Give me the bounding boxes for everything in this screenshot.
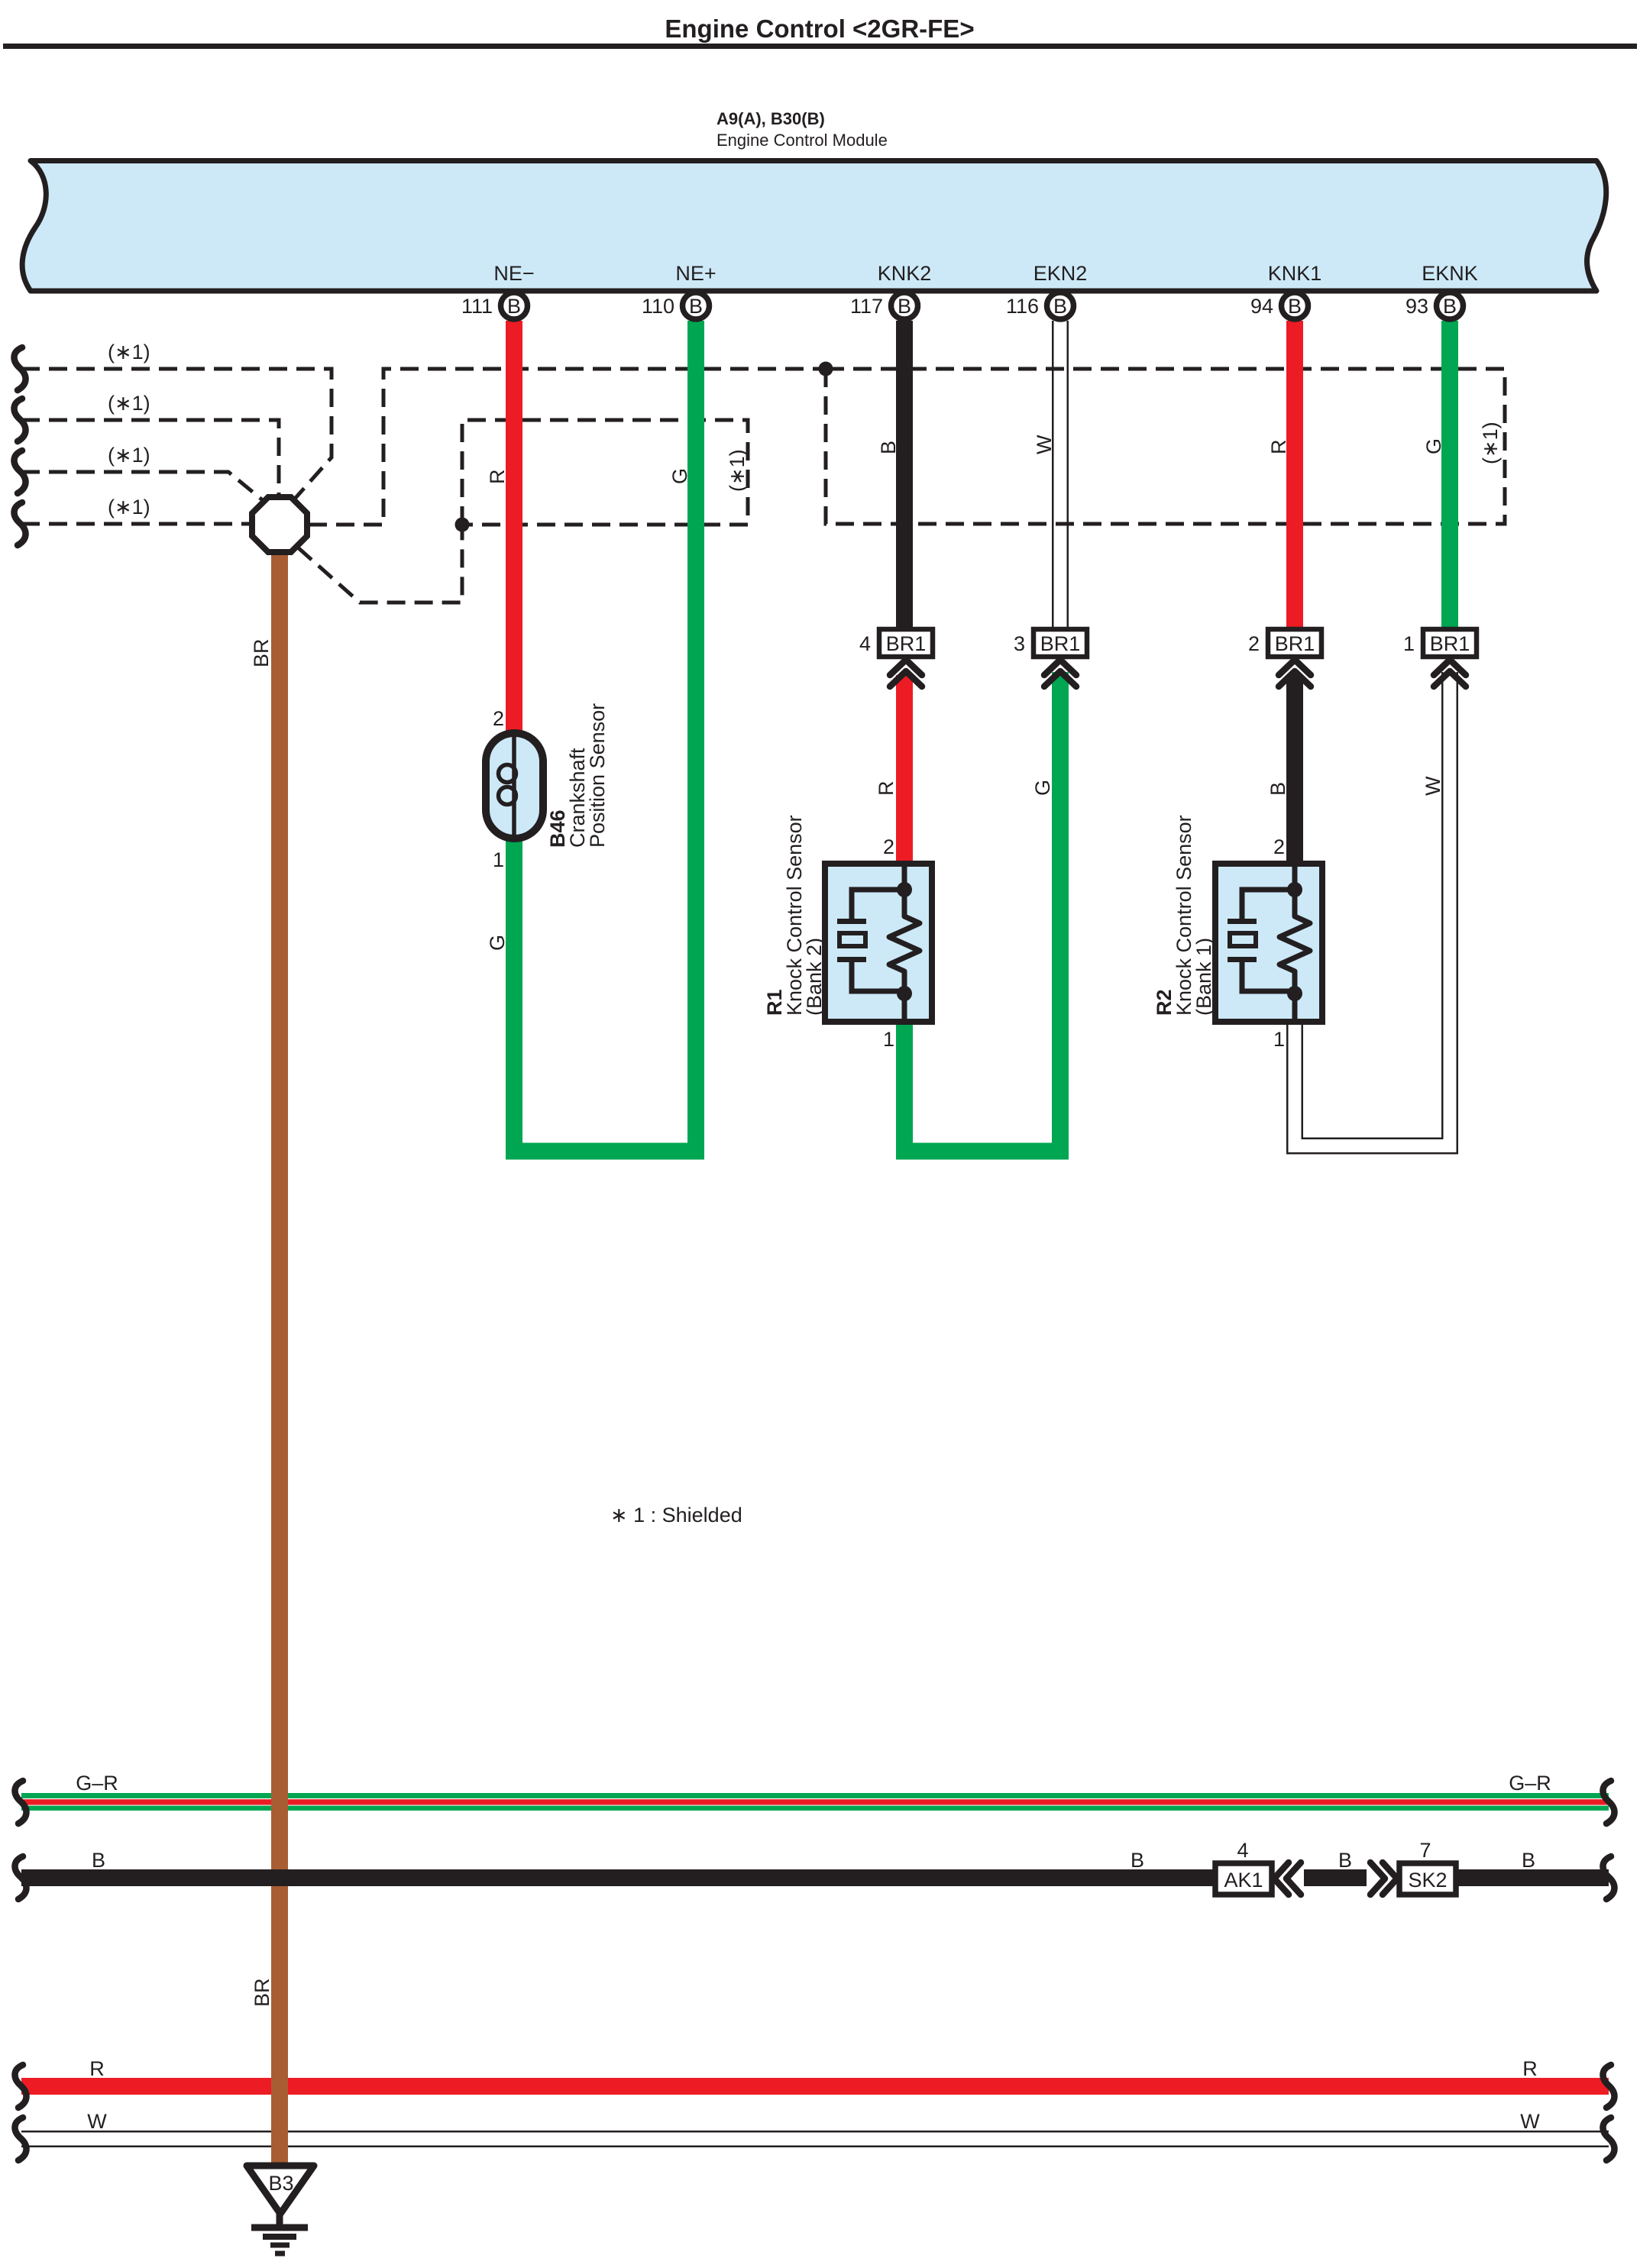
svg-text:116: 116	[1006, 295, 1039, 318]
knock control sensor R2 body	[1215, 864, 1322, 1022]
R2 junction dots	[1287, 882, 1302, 897]
shield dashed line 1 break	[14, 347, 25, 390]
svg-text:7: 7	[1419, 1839, 1431, 1862]
bus G-R left break	[15, 1781, 26, 1824]
ECM module body (light blue bar with torn ends)	[22, 161, 1606, 292]
svg-text:W: W	[87, 2110, 107, 2133]
bus B left break	[15, 1856, 26, 1899]
wire KNK1 red (pin 94 to BR1 pin 2)	[1286, 321, 1303, 629]
wire green (R1 pin 1 to BR1 pin 3)	[904, 672, 1060, 1152]
svg-text:B: B	[1266, 782, 1289, 796]
label R1 Knock Control Sensor (Bank 2) (rotated)	[763, 815, 826, 1016]
wire red (BR1 pin 4 to R1 pin 2)	[896, 675, 913, 864]
bus G-R right break	[1603, 1781, 1614, 1824]
shield wire 2 (dashed) to octagon	[21, 420, 279, 495]
svg-text:94: 94	[1250, 295, 1273, 318]
wire EKNK green (pin 93 to BR1 pin 1)	[1441, 321, 1458, 629]
svg-text:G: G	[486, 935, 509, 951]
connector AK1 pin 4	[1215, 1839, 1304, 1897]
svg-text:B: B	[689, 295, 703, 318]
svg-text:(∗1): (∗1)	[108, 496, 150, 519]
pin 117 connector circle B	[850, 292, 918, 319]
pin 116 connector circle B	[1006, 292, 1074, 319]
knock control sensor R1 body	[825, 864, 932, 1022]
connector BR1 pin 2	[1248, 629, 1321, 687]
R1 resistor	[889, 864, 920, 1022]
shield wire 3 (dashed) to octagon	[21, 472, 264, 501]
svg-text:W: W	[1520, 2110, 1540, 2133]
connector BR1 pin 4	[859, 629, 933, 687]
svg-text:G: G	[1422, 438, 1445, 454]
svg-text:4: 4	[1237, 1839, 1248, 1862]
R1 junction dots	[897, 882, 912, 897]
svg-text:NE+: NE+	[675, 262, 716, 285]
svg-text:R: R	[1267, 440, 1290, 455]
svg-text:A9(A), B30(B): A9(A), B30(B)	[716, 109, 825, 128]
label B46 Crankshaft Position Sensor (rotated)	[546, 703, 609, 848]
svg-text:1: 1	[493, 848, 504, 871]
svg-text:R: R	[1522, 2057, 1538, 2080]
svg-text:B: B	[92, 1849, 105, 1872]
bus W (white)	[21, 2131, 1609, 2147]
ground hatch	[251, 2213, 308, 2253]
wire black (BR1 pin 2 to R2 pin 2)	[1286, 675, 1303, 864]
svg-text:Engine Control Module: Engine Control Module	[716, 131, 888, 150]
svg-text:BR: BR	[250, 638, 273, 667]
svg-text:EKNK: EKNK	[1422, 262, 1478, 285]
svg-text:EKN2: EKN2	[1033, 262, 1088, 285]
shield dashed line 2 break	[14, 399, 25, 441]
R2 piezo capacitor branch	[1242, 890, 1295, 919]
svg-text:(∗1): (∗1)	[1479, 422, 1502, 464]
shield wire 1 (dashed) to octagon	[21, 369, 332, 499]
svg-text:W: W	[1033, 435, 1056, 454]
svg-text:NE−: NE−	[493, 262, 534, 285]
svg-text:∗ 1 : Shielded: ∗ 1 : Shielded	[610, 1504, 742, 1527]
bus W left break	[15, 2118, 26, 2160]
label R2 Knock Control Sensor (Bank 1) (rotated)	[1153, 815, 1215, 1016]
svg-text:117: 117	[850, 295, 883, 318]
wire KNK2 black (pin 117 to BR1 pin 4)	[896, 321, 913, 629]
wire white (R2 pin 1 to BR1 pin 1)	[1295, 672, 1450, 1146]
svg-text:2: 2	[493, 707, 504, 730]
wire BR brown (octagon to ground B3)	[271, 550, 288, 2167]
shield dashed line 3 break	[14, 451, 25, 493]
svg-text:B3: B3	[268, 2172, 293, 2195]
bus R left break	[15, 2065, 26, 2108]
bus B right break	[1603, 1856, 1614, 1899]
shield dashed line 4 break	[14, 502, 25, 545]
svg-text:2: 2	[1273, 835, 1285, 858]
pin 111 connector circle B	[461, 292, 528, 319]
pin 94 connector circle B	[1250, 292, 1308, 319]
svg-text:2: 2	[883, 835, 894, 858]
bus B (black)	[21, 1869, 1609, 1886]
bus G-R (green-red striped)	[21, 1793, 1609, 1811]
svg-text:4: 4	[859, 632, 871, 655]
svg-text:3: 3	[1014, 632, 1025, 655]
svg-text:G: G	[668, 468, 691, 484]
svg-text:W: W	[1422, 776, 1444, 796]
svg-text:(∗1): (∗1)	[108, 444, 150, 467]
svg-text:(Bank 2): (Bank 2)	[803, 938, 826, 1016]
svg-text:B: B	[1522, 1849, 1535, 1872]
svg-text:BR1: BR1	[1430, 632, 1470, 655]
svg-text:B: B	[1443, 295, 1457, 318]
wire G green (crank sensor pin 1 to pin 110 NE+)	[514, 321, 696, 1152]
shield wire from octagon right to top dashed bus	[309, 369, 826, 525]
svg-text:G–R: G–R	[1509, 1772, 1551, 1795]
svg-text:Position Sensor: Position Sensor	[586, 703, 609, 848]
connector SK2 pin 7	[1367, 1839, 1456, 1897]
svg-text:SK2: SK2	[1408, 1869, 1447, 1892]
svg-text:B: B	[1288, 295, 1302, 318]
bus R (red)	[21, 2078, 1609, 2095]
crankshaft sensor shield box (dashed)	[462, 420, 748, 525]
bus R right break	[1603, 2065, 1614, 2108]
crankshaft position sensor B46 body	[486, 733, 543, 838]
svg-text:B: B	[898, 295, 911, 318]
svg-text:B: B	[1338, 1849, 1352, 1872]
wire EKN2 white (pin 116 to BR1 pin 3)	[1052, 321, 1069, 629]
svg-text:R: R	[89, 2057, 105, 2080]
shield drain diagonal from octagon to crank shield box	[298, 525, 462, 603]
svg-text:1: 1	[1403, 632, 1415, 655]
connector BR1 pin 1	[1403, 629, 1477, 687]
svg-text:BR1: BR1	[886, 632, 927, 655]
svg-text:R: R	[486, 470, 509, 485]
svg-text:BR: BR	[251, 1978, 273, 2007]
svg-text:2: 2	[1248, 632, 1260, 655]
svg-text:B: B	[507, 295, 521, 318]
svg-text:G: G	[1031, 780, 1054, 796]
R1 piezo capacitor branch	[852, 890, 904, 919]
svg-text:Engine Control <2GR-FE>: Engine Control <2GR-FE>	[665, 15, 974, 43]
svg-text:KNK2: KNK2	[878, 262, 932, 285]
junction dot knock shield	[819, 362, 833, 376]
shield octagon junction	[252, 497, 307, 552]
svg-text:(∗1): (∗1)	[108, 392, 150, 415]
svg-text:AK1: AK1	[1224, 1869, 1263, 1892]
bus W right break	[1603, 2118, 1614, 2160]
connector BR1 pin 3	[1014, 629, 1087, 687]
ground B3 triangle	[247, 2166, 314, 2214]
svg-text:B: B	[1131, 1849, 1144, 1872]
junction dot crank shield	[455, 518, 470, 532]
svg-text:G–R: G–R	[76, 1772, 118, 1795]
svg-text:KNK1: KNK1	[1268, 262, 1322, 285]
svg-text:111: 111	[461, 295, 493, 318]
svg-text:1: 1	[883, 1028, 894, 1051]
svg-text:B: B	[1053, 295, 1067, 318]
svg-text:110: 110	[642, 295, 674, 318]
pin 93 connector circle B	[1405, 292, 1464, 319]
svg-text:1: 1	[1273, 1028, 1285, 1051]
svg-text:93: 93	[1405, 295, 1428, 318]
svg-text:B: B	[877, 441, 900, 454]
title rule	[3, 44, 1637, 49]
pin 110 connector circle B	[642, 292, 710, 319]
R2 resistor	[1279, 864, 1310, 1022]
svg-text:BR1: BR1	[1040, 632, 1081, 655]
svg-text:(Bank 1): (Bank 1)	[1192, 938, 1215, 1016]
shield wire 4 (dashed) to octagon	[21, 522, 251, 526]
crank sensor coil	[512, 735, 516, 836]
svg-text:(∗1): (∗1)	[726, 449, 749, 492]
svg-text:R: R	[875, 781, 898, 796]
knock sensors shield box (dashed)	[826, 369, 1505, 524]
svg-text:(∗1): (∗1)	[108, 341, 150, 363]
svg-text:BR1: BR1	[1275, 632, 1315, 655]
wire NE- red (pin 111 to crank sensor pin 2)	[506, 321, 522, 736]
